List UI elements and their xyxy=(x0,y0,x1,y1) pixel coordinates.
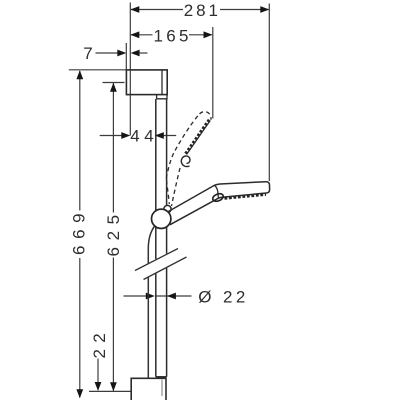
wire xyxy=(131,9,183,11)
node head-cap xyxy=(215,185,219,198)
wire xyxy=(89,390,131,392)
node C xyxy=(130,31,139,38)
wire xyxy=(112,258,114,391)
svg-text:22: 22 xyxy=(90,327,109,359)
svg-text:Ø 22: Ø 22 xyxy=(198,287,248,306)
node L xyxy=(110,382,117,391)
wire xyxy=(100,135,122,137)
node I xyxy=(76,70,83,79)
svg-text:281: 281 xyxy=(184,1,221,20)
node dashed-shower xyxy=(166,112,211,206)
node dashed-face xyxy=(187,121,211,155)
node hose xyxy=(148,226,155,379)
node dashed-ticks xyxy=(185,120,209,154)
node M xyxy=(95,382,102,391)
wire xyxy=(97,359,99,384)
wire xyxy=(79,71,81,211)
node collar xyxy=(157,95,167,99)
node bar-right xyxy=(166,99,168,254)
node E xyxy=(117,50,126,57)
wire xyxy=(220,9,269,11)
node F xyxy=(131,50,140,57)
node ball xyxy=(152,209,171,228)
svg-text:669: 669 xyxy=(70,207,89,255)
node bracket-bottom xyxy=(131,378,166,400)
wire xyxy=(125,43,127,70)
wire xyxy=(129,3,131,136)
node N xyxy=(146,293,155,300)
node K xyxy=(110,83,117,92)
wire xyxy=(268,4,270,182)
wire xyxy=(189,34,212,36)
wire xyxy=(161,380,163,397)
svg-text:7: 7 xyxy=(83,44,92,63)
node J xyxy=(76,389,83,398)
node bar-end xyxy=(156,376,167,378)
wire xyxy=(155,295,192,297)
node nub xyxy=(164,205,171,212)
node A xyxy=(130,6,139,13)
wire xyxy=(112,83,114,213)
svg-text:44: 44 xyxy=(130,126,158,145)
wire xyxy=(69,69,127,71)
wire xyxy=(140,52,148,54)
node bracket-top xyxy=(126,70,167,95)
svg-text:165: 165 xyxy=(153,26,191,45)
node bar-left xyxy=(156,99,167,377)
wire xyxy=(131,34,153,36)
wire xyxy=(79,258,81,398)
node D xyxy=(204,31,213,38)
wire xyxy=(161,70,163,95)
wire xyxy=(124,295,147,297)
node handle xyxy=(168,182,270,225)
wire xyxy=(103,82,125,84)
wire xyxy=(96,52,118,54)
svg-text:625: 625 xyxy=(104,208,123,256)
node curl xyxy=(181,156,190,167)
node pivot xyxy=(212,192,225,202)
node B xyxy=(260,6,269,13)
node G xyxy=(121,132,130,139)
node break-mark xyxy=(135,249,187,280)
node O xyxy=(167,293,176,300)
wire xyxy=(155,135,176,137)
node H xyxy=(155,132,164,139)
node spray-ticks xyxy=(225,195,267,199)
wire xyxy=(212,27,214,119)
